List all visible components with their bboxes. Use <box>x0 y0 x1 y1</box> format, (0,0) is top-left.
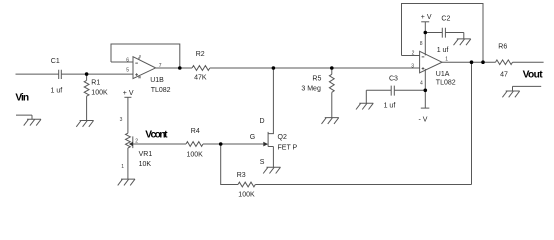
junction C1-R1 node <box>85 72 89 76</box>
wire +V to VR1 <box>127 97 129 133</box>
wire ground to C3 <box>366 90 391 103</box>
svg-text:R2: R2 <box>196 51 205 58</box>
wire R1 to ground <box>86 96 88 120</box>
svg-text:1: 1 <box>121 164 124 170</box>
svg-text:3: 3 <box>120 117 123 123</box>
ground at C3 <box>356 103 373 109</box>
svg-text:4: 4 <box>139 75 142 80</box>
wire Vcont gate run <box>133 143 186 145</box>
wire R2 to U1A pin 3 <box>210 67 420 69</box>
ground at C2 <box>454 39 471 45</box>
wire node A to Q2 drain <box>268 68 273 134</box>
wire +V to U1A pin 8 <box>424 22 426 56</box>
resistor R2 <box>192 66 210 71</box>
svg-text:D: D <box>260 118 265 125</box>
svg-text:R6: R6 <box>498 44 507 51</box>
op-amp U1B <box>133 57 156 79</box>
svg-text:+ V: + V <box>421 14 432 21</box>
op-amp U1A <box>420 51 442 73</box>
wire R5 to ground <box>331 92 333 117</box>
wire C3 to -V node <box>394 89 425 91</box>
transistor Q2 source lead <box>268 147 273 168</box>
ground below R1 <box>76 121 93 127</box>
wire U1A pin 2 stub <box>402 55 420 57</box>
svg-text:Vout: Vout <box>523 70 544 81</box>
svg-text:R1: R1 <box>91 80 100 87</box>
ground below VR1 <box>118 179 135 185</box>
svg-text:Q2: Q2 <box>278 134 287 141</box>
wire U1B pin 6 stub <box>111 61 133 63</box>
ground at Vout <box>502 86 541 97</box>
svg-text:3 Meg: 3 Meg <box>301 86 321 93</box>
svg-text:U1A: U1A <box>436 71 450 78</box>
wire R1 branch <box>86 74 88 80</box>
svg-text:7: 7 <box>159 63 162 69</box>
junction U1A feedback node <box>481 60 485 64</box>
svg-text:8: 8 <box>139 53 142 58</box>
wire R4 to Q2 gate <box>203 143 263 145</box>
svg-text:R3: R3 <box>237 172 246 179</box>
capacitor C3 <box>391 86 394 96</box>
wire R3 branch down <box>221 144 238 185</box>
junction node A <box>272 66 276 70</box>
resistor R6 <box>496 60 513 65</box>
svg-text:S: S <box>260 159 265 166</box>
wire input segment left <box>16 73 59 75</box>
wire U1A feedback loop <box>402 4 484 63</box>
junction output to bottom feedback <box>470 60 474 64</box>
capacitor C2 <box>442 28 445 38</box>
svg-text:100K: 100K <box>91 89 108 96</box>
wire VR1 to ground <box>127 148 129 179</box>
wire U1B output <box>156 67 192 69</box>
svg-text:8: 8 <box>420 41 423 47</box>
ground below R5 <box>322 118 339 124</box>
capacitor C1 <box>59 70 62 79</box>
power +V supply bar U1A <box>421 21 429 23</box>
svg-text:2: 2 <box>412 51 415 57</box>
svg-text:R4: R4 <box>191 128 200 135</box>
op-amp U1B power pin ticks <box>138 57 140 78</box>
svg-text:FET P: FET P <box>278 145 298 152</box>
svg-text:U1B: U1B <box>150 77 164 84</box>
resistor R5 <box>329 74 334 92</box>
resistor R4 <box>186 142 203 147</box>
resistor R3 <box>238 182 255 187</box>
junction C3 -V node <box>424 89 428 93</box>
op-amp U1B input polarity marks <box>135 63 138 76</box>
wire U1A output <box>442 61 496 63</box>
wire R3 to output feedback riser <box>255 62 471 184</box>
svg-text:47K: 47K <box>194 74 207 81</box>
power -V supply bar <box>421 107 430 109</box>
svg-text:C1: C1 <box>51 58 60 65</box>
svg-text:Vcont: Vcont <box>145 130 168 141</box>
svg-text:C3: C3 <box>389 75 398 82</box>
potentiometer VR1 wiper <box>132 136 134 148</box>
svg-text:TL082: TL082 <box>436 80 456 87</box>
svg-text:100K: 100K <box>187 151 204 158</box>
svg-text:10K: 10K <box>139 161 152 168</box>
svg-text:4: 4 <box>420 80 423 86</box>
potentiometer VR1 <box>126 133 131 148</box>
junction R5 node <box>330 66 334 70</box>
svg-text:6: 6 <box>126 57 129 63</box>
ground at Vin <box>16 115 41 126</box>
svg-text:- V: - V <box>419 116 428 123</box>
svg-text:1: 1 <box>445 56 448 62</box>
svg-text:1 uf: 1 uf <box>384 103 396 110</box>
svg-text:3: 3 <box>411 64 414 70</box>
svg-text:VR1: VR1 <box>139 151 153 158</box>
junction +V C2 node <box>424 31 428 35</box>
svg-text:2: 2 <box>135 139 138 145</box>
svg-text:TL082: TL082 <box>151 87 171 94</box>
wire U1B feedback loop <box>111 44 180 68</box>
resistor R1 <box>84 80 89 96</box>
svg-text:1 uf: 1 uf <box>437 47 449 54</box>
wire +V node to C2 <box>425 32 442 34</box>
op-amp U1A input polarity marks <box>422 57 425 70</box>
wire R5 branch <box>331 68 333 74</box>
svg-text:G: G <box>250 134 255 141</box>
potentiometer VR1 wiper arrow <box>129 142 133 146</box>
junction U1B output feedback <box>178 66 182 70</box>
ground at Q2 source <box>263 167 280 173</box>
svg-text:Vin: Vin <box>15 93 28 104</box>
svg-text:47: 47 <box>500 71 508 78</box>
wire U1A pin 4 to -V <box>424 69 426 108</box>
wire C1 to U1B pin 5 <box>61 73 133 75</box>
wire R6 to Vout <box>513 61 544 63</box>
transistor Q2 gate arrow <box>263 142 268 147</box>
svg-text:1 uf: 1 uf <box>51 87 63 94</box>
wire C2 to ground <box>445 33 463 39</box>
svg-text:+ V: + V <box>123 90 134 97</box>
transistor Q2 channel <box>267 132 269 147</box>
svg-text:5: 5 <box>126 68 129 74</box>
svg-text:R5: R5 <box>312 76 321 83</box>
svg-text:100K: 100K <box>238 192 255 199</box>
junction gate R4 R3 node <box>219 142 223 146</box>
power +V supply bar VR1 <box>124 96 131 98</box>
svg-text:C2: C2 <box>441 16 450 23</box>
